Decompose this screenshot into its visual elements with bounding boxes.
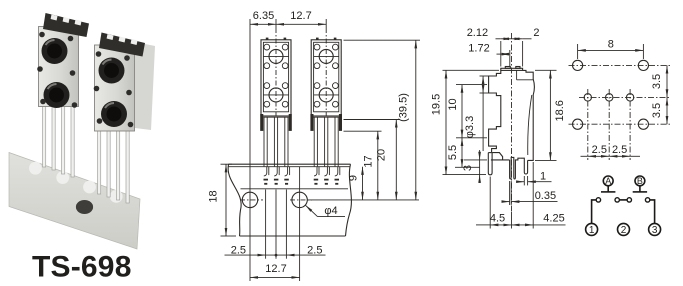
svg-text:4.5: 4.5: [490, 213, 505, 225]
photo: left switch rivets: [37, 32, 77, 108]
photo: right switch side panel: [135, 42, 155, 130]
svg-text:19.5: 19.5: [431, 94, 443, 115]
dimension 6.35 top: [249, 19, 251, 281]
photo: right switch leads: [98, 128, 130, 203]
bottom view: pin hole 3: [626, 94, 633, 101]
front view: tape hole right: [292, 192, 307, 207]
bottom view: corner post hole bottom-right: [638, 119, 648, 129]
wire contact a1 to pin 1: [592, 200, 596, 223]
front view: left switch lower rivets: [264, 83, 270, 89]
front view: tape hole left: [242, 192, 257, 207]
dimension 18.6: [535, 69, 557, 71]
pin 1 circle: [586, 223, 598, 235]
front view: right switch legs: [314, 117, 338, 166]
svg-text:1.72: 1.72: [468, 43, 489, 55]
svg-text:2.5: 2.5: [612, 144, 627, 156]
switch B stem: [639, 186, 641, 192]
side view: body left profile with buttons: [489, 70, 501, 152]
front view: tape bottom edge: [240, 235, 346, 237]
svg-text:3.5: 3.5: [651, 74, 663, 89]
dimension 3: [464, 159, 487, 161]
photo: right switch top cap: [99, 33, 145, 57]
front view: right switch top tabs: [316, 38, 319, 40]
photo: left switch leads: [43, 103, 75, 177]
bottom view: pin hole 1: [584, 94, 591, 101]
dimension diameter 3.3: [480, 75, 490, 77]
front view: left switch legs: [264, 117, 288, 166]
svg-text:1: 1: [540, 170, 546, 182]
contact b1: [627, 198, 631, 202]
svg-text:2.5: 2.5: [592, 144, 607, 156]
contact a2: [615, 198, 619, 202]
dimension 20: [344, 119, 401, 121]
pin 2 circle: [618, 223, 630, 235]
front view: left switch body outline: [261, 40, 291, 116]
front view: tape right break edge: [346, 164, 352, 236]
front view: left switch upper button: [269, 49, 283, 63]
dimension 12.7 bottom: [299, 167, 301, 281]
side view: top cap plate: [501, 68, 523, 70]
dimension 9: [362, 167, 364, 200]
svg-text:TS-698: TS-698: [32, 251, 132, 284]
dimension 12.7 top: [275, 19, 277, 28]
photo: left switch body: [39, 27, 79, 107]
front view: right switch upper button: [319, 49, 333, 63]
front view: left switch upper rivets: [264, 44, 270, 50]
svg-text:2.5: 2.5: [307, 245, 322, 257]
front view: right switch lower button: [319, 88, 333, 102]
contact a1: [596, 198, 600, 202]
side view: centerline: [511, 33, 513, 212]
svg-text:12.7: 12.7: [265, 263, 286, 275]
dimension 0.35: [509, 181, 511, 205]
photo: left switch upper button: [42, 38, 68, 64]
svg-text:2: 2: [621, 225, 627, 236]
front view: right switch body outline: [311, 40, 341, 116]
photo: right cap hole 2: [119, 37, 126, 43]
svg-text:2.5: 2.5: [231, 245, 246, 257]
dimension 4.5: [489, 177, 491, 229]
svg-text:A: A: [605, 176, 611, 186]
svg-text:B: B: [637, 176, 643, 186]
dimension 1.72: [497, 53, 501, 55]
front view: lead hooks in tape: [264, 167, 340, 176]
dimension 2.5 2.5 bottom: [265, 190, 267, 259]
front view: lead hook end dashes: [264, 180, 340, 184]
dimension 2.12: [500, 41, 502, 67]
photo: left switch top cap: [43, 13, 89, 37]
front view: right switch lower rivets: [314, 83, 320, 89]
front view: tape left break edge: [228, 164, 241, 236]
svg-text:(39.5): (39.5): [398, 93, 410, 122]
photo: tape center dark hole: [76, 200, 93, 214]
front view: hole centre dashes: [240, 199, 263, 201]
photo: tape sprocket hole 3: [83, 181, 96, 194]
dimension 10: [456, 84, 487, 86]
photo: right cap hole 1: [107, 34, 114, 40]
dimension 18 left: [221, 163, 233, 165]
side view: bracket inner curve: [528, 95, 532, 155]
switch A blade bar: [601, 191, 615, 193]
bottom view: corner post hole bottom-left: [573, 119, 583, 129]
front view: tape mid reference line: [241, 188, 349, 190]
photo: carrier tape strip: [9, 153, 140, 250]
svg-text:8: 8: [608, 39, 614, 51]
svg-text:2.12: 2.12: [467, 27, 488, 39]
wire contact a2 to b1: [620, 199, 627, 201]
photo: tape sprocket hole 2: [56, 171, 69, 184]
svg-text:5.5: 5.5: [447, 145, 459, 160]
photo: left switch lower button: [44, 82, 70, 108]
front view: left switch top tabs: [266, 38, 269, 40]
bottom view: corner post hole top-right: [638, 60, 648, 70]
photo: right cap hole 3: [131, 39, 138, 45]
front view: right switch centerline: [325, 28, 327, 116]
photo: right switch lower button: [101, 101, 127, 127]
bottom view: column centerlines: [587, 89, 589, 160]
photo: tape sprocket hole 1: [29, 162, 42, 175]
photo: right switch upper button: [99, 58, 125, 84]
dimension 3.5 upper: [666, 65, 668, 97]
svg-text:0.35: 0.35: [535, 190, 556, 202]
svg-text:3: 3: [652, 225, 658, 236]
front view: tape top edge double line: [229, 163, 351, 165]
svg-text:18.6: 18.6: [554, 100, 566, 121]
side view: foot: [488, 153, 492, 175]
side view: right leg: [521, 158, 528, 174]
dimension 1: [523, 176, 525, 185]
dimension 8: [577, 44, 579, 59]
front view: right sleeve bars: [310, 114, 313, 131]
label diameter 4 with leader: [306, 205, 318, 216]
photo: right switch rivets: [94, 51, 134, 127]
node B terminal circle: [635, 176, 645, 186]
reference line from hole centre to right dims: [308, 199, 420, 201]
front view: right switch upper rivets: [314, 44, 320, 50]
photo: left cap hole 1: [51, 15, 58, 21]
dimension 3.5 lower: [666, 97, 668, 124]
side view: right bracket: [523, 70, 535, 160]
front view: left switch lower button: [269, 88, 283, 102]
svg-text:3: 3: [462, 165, 474, 171]
svg-text:18: 18: [208, 190, 220, 202]
dimension (39.5) right: [344, 39, 421, 41]
bottom view: corner post hole top-left: [573, 60, 583, 70]
svg-text:4.25: 4.25: [543, 213, 564, 225]
photo: left cap hole 2: [63, 17, 70, 23]
side view: bottom edge and middle legs: [491, 159, 510, 161]
dimension 17: [344, 130, 382, 132]
svg-text:9: 9: [348, 175, 360, 181]
photo: right switch body: [95, 45, 135, 131]
node A terminal circle: [603, 176, 613, 186]
svg-text:10: 10: [447, 98, 459, 110]
contact b2: [645, 198, 649, 202]
svg-text:17: 17: [363, 155, 375, 167]
photo: left cap hole 3: [75, 20, 82, 26]
dimension 5.5: [455, 166, 480, 168]
bottom view: pin hole 2: [606, 94, 613, 101]
svg-text:2: 2: [533, 27, 539, 39]
dimension 19.5: [443, 69, 500, 71]
schematic labels: [589, 176, 658, 236]
wire contact b2 to pin 3: [650, 200, 655, 223]
svg-text:φ4: φ4: [324, 205, 337, 217]
bottom view: row centerlines: [569, 64, 671, 66]
svg-text:20: 20: [376, 149, 388, 161]
switch B blade bar: [633, 191, 647, 193]
front view: left switch centerline: [275, 28, 277, 116]
pin 3 circle: [649, 223, 661, 235]
dimension 4.25: [512, 224, 534, 226]
svg-text:3.5: 3.5: [651, 103, 663, 118]
dimension 2.5 2.5: [581, 155, 588, 157]
svg-text:1: 1: [589, 225, 595, 236]
photo: tape sprocket hole 4: [110, 190, 123, 203]
front view: left sleeve bars: [260, 114, 263, 131]
svg-text:φ3.3: φ3.3: [464, 116, 476, 138]
switch A stem: [607, 186, 609, 192]
svg-text:6.35: 6.35: [253, 10, 274, 22]
dimension 2: [512, 38, 523, 40]
svg-text:12.7: 12.7: [290, 10, 311, 22]
